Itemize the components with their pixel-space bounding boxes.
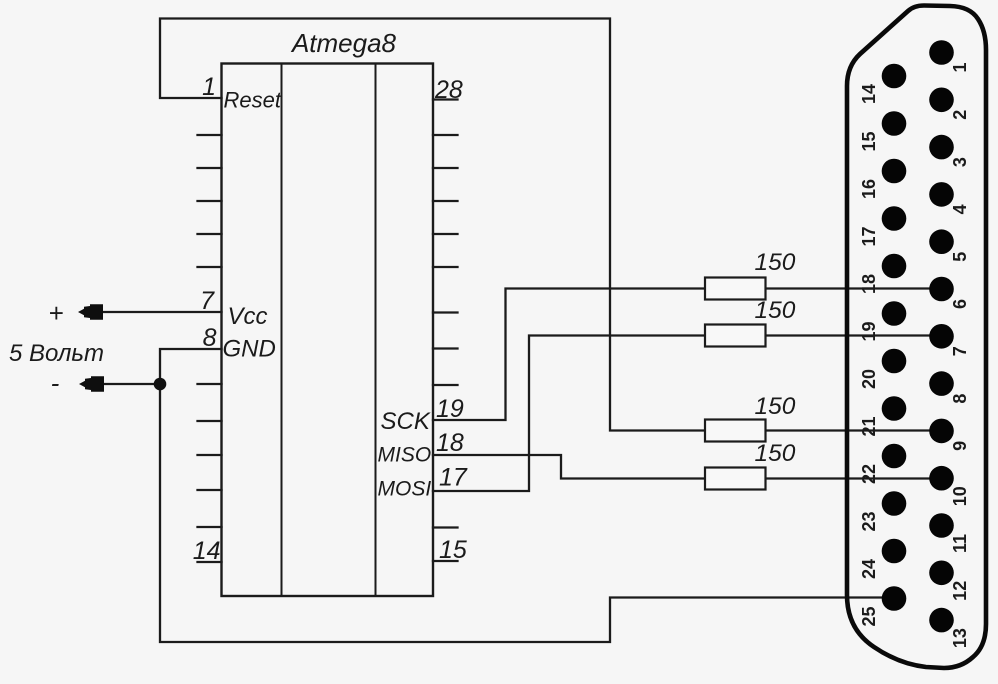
svg-text:10: 10	[950, 486, 970, 506]
resistor R2 150	[705, 325, 766, 347]
svg-text:150: 150	[755, 440, 796, 467]
connector pin 25	[882, 586, 907, 611]
connector pin 22	[882, 444, 907, 469]
svg-text:MOSI: MOSI	[378, 478, 432, 501]
connector pin 13	[929, 608, 954, 633]
IC U1 pin 13 stub	[198, 526, 222, 528]
connector pin 1	[929, 40, 954, 65]
connector pin 23	[882, 491, 907, 516]
wire MISO net: R4 output to DB25 pin 10	[766, 477, 942, 479]
svg-text:11: 11	[950, 534, 970, 553]
svg-text:17: 17	[859, 226, 879, 246]
IC U1 pin 23 stub	[433, 266, 458, 268]
arrow minus terminal	[79, 376, 104, 391]
wire Reset: pin1 to top rail	[160, 19, 705, 431]
svg-text:150: 150	[755, 393, 796, 420]
svg-text:18: 18	[859, 274, 879, 294]
svg-text:12: 12	[950, 581, 970, 601]
resistor R1 150	[705, 278, 766, 300]
IC U1 pin 10 stub	[198, 420, 222, 422]
IC U1 pin 12 stub	[198, 489, 222, 491]
connector pin 17	[882, 206, 907, 231]
svg-text:17: 17	[439, 464, 468, 492]
IC U1 pin 24 stub	[433, 233, 458, 235]
svg-text:9: 9	[950, 441, 970, 451]
svg-text:19: 19	[436, 395, 464, 423]
svg-text:23: 23	[859, 511, 879, 531]
IC U1 pin 25 stub	[433, 200, 458, 202]
svg-text:19: 19	[859, 321, 879, 341]
connector pin 10	[929, 466, 954, 491]
IC U1 pin 2 stub	[198, 134, 222, 136]
resistor R3 150	[705, 420, 766, 442]
svg-text:1: 1	[202, 73, 216, 101]
svg-text:14: 14	[193, 537, 221, 565]
svg-text:4: 4	[950, 204, 970, 214]
svg-text:8: 8	[203, 324, 217, 352]
IC U1 inner column line right	[375, 64, 377, 597]
connector pin 5	[929, 229, 954, 254]
IC U1 pin 11 stub	[198, 454, 222, 456]
connector pin 12	[929, 561, 954, 586]
connector pin 20	[882, 349, 907, 374]
svg-text:24: 24	[859, 559, 879, 579]
svg-text:6: 6	[950, 299, 970, 309]
IC U1 pin 26 stub	[433, 167, 458, 169]
svg-text:2: 2	[950, 110, 970, 120]
svg-text:Reset: Reset	[224, 88, 282, 113]
connector pin 2	[929, 88, 954, 113]
svg-text:150: 150	[755, 249, 796, 276]
node GND junction dot	[154, 378, 167, 391]
svg-text:3: 3	[950, 157, 970, 167]
svg-text:SCK: SCK	[381, 408, 431, 435]
IC U1 pin 9 stub	[198, 383, 222, 385]
wire SCK pin19 to R1	[433, 289, 705, 421]
svg-text:14: 14	[859, 84, 879, 104]
arrow plus terminal	[78, 304, 103, 319]
svg-text:21: 21	[859, 416, 879, 436]
svg-text:150: 150	[755, 297, 796, 324]
connector pin 3	[929, 135, 954, 160]
svg-text:22: 22	[859, 464, 879, 484]
connector pin 9	[929, 419, 954, 444]
IC U1 pin 15 stub	[433, 560, 458, 562]
svg-text:1: 1	[950, 62, 970, 72]
wire MISO pin18 to R4	[433, 455, 705, 479]
svg-text:+: +	[48, 298, 63, 328]
IC U1 pin 22 stub	[433, 311, 458, 313]
connector pin 18	[882, 254, 907, 279]
wire SCK net: R1 output to DB25 pin 6	[766, 287, 942, 289]
IC U1 pin 16 stub	[433, 526, 458, 528]
IC U1 inner column line left	[281, 64, 283, 597]
connector pin 11	[929, 513, 954, 538]
wire Vcc: pin7 to plus arrow	[88, 311, 222, 313]
IC U1 pin 21 stub	[433, 347, 458, 349]
svg-text:28: 28	[434, 76, 463, 104]
wire GND: pin8 left then down and bottom rail to DB25 pin 25	[160, 349, 894, 642]
wire MOSI net: R2 output to DB25 pin 7	[766, 334, 942, 336]
wire GND minus branch	[88, 383, 160, 385]
connector pin 21	[882, 396, 907, 421]
svg-text:GND: GND	[223, 336, 276, 363]
svg-text:20: 20	[859, 369, 879, 389]
svg-text:-: -	[51, 368, 60, 398]
connector pin 14	[882, 64, 907, 89]
connector pin 4	[929, 182, 954, 207]
connector X1 DB25 outline	[847, 6, 986, 669]
svg-text:MISO: MISO	[378, 444, 432, 467]
IC U1 pin 5 stub	[198, 233, 222, 235]
IC U1 pin 3 stub	[198, 167, 222, 169]
connector pin 15	[882, 111, 907, 136]
svg-text:25: 25	[859, 606, 879, 626]
svg-text:18: 18	[436, 429, 464, 457]
connector pin 19	[882, 301, 907, 326]
svg-text:16: 16	[859, 179, 879, 199]
wire Reset net: R3 output to DB25 pin 9	[766, 429, 942, 431]
connector pin 16	[882, 159, 907, 184]
svg-text:15: 15	[859, 131, 879, 151]
svg-text:7: 7	[950, 346, 970, 356]
svg-text:7: 7	[200, 287, 215, 315]
resistor R4 150	[705, 468, 766, 490]
wire MOSI pin17 to R2	[433, 336, 705, 492]
connector pin 8	[929, 371, 954, 396]
connector pin 7	[929, 324, 954, 349]
IC U1 Atmega8 body	[222, 64, 434, 597]
IC U1 pin 6 stub	[198, 266, 222, 268]
IC U1 pin 4 stub	[198, 200, 222, 202]
IC U1 pin 20 stub	[433, 384, 458, 386]
svg-text:13: 13	[950, 628, 970, 648]
svg-text:5 Вольт: 5 Вольт	[9, 340, 104, 367]
svg-text:Atmega8: Atmega8	[290, 28, 397, 58]
svg-text:5: 5	[950, 252, 970, 262]
svg-text:Vcc: Vcc	[228, 303, 268, 330]
connector pin 24	[882, 539, 907, 564]
IC U1 pin 27 stub	[433, 134, 458, 136]
IC U1 pin 28 stub	[433, 98, 458, 100]
IC U1 pin 14 stub	[198, 561, 222, 563]
svg-text:15: 15	[439, 536, 467, 564]
svg-text:8: 8	[950, 394, 970, 404]
connector pin 6	[929, 277, 954, 302]
